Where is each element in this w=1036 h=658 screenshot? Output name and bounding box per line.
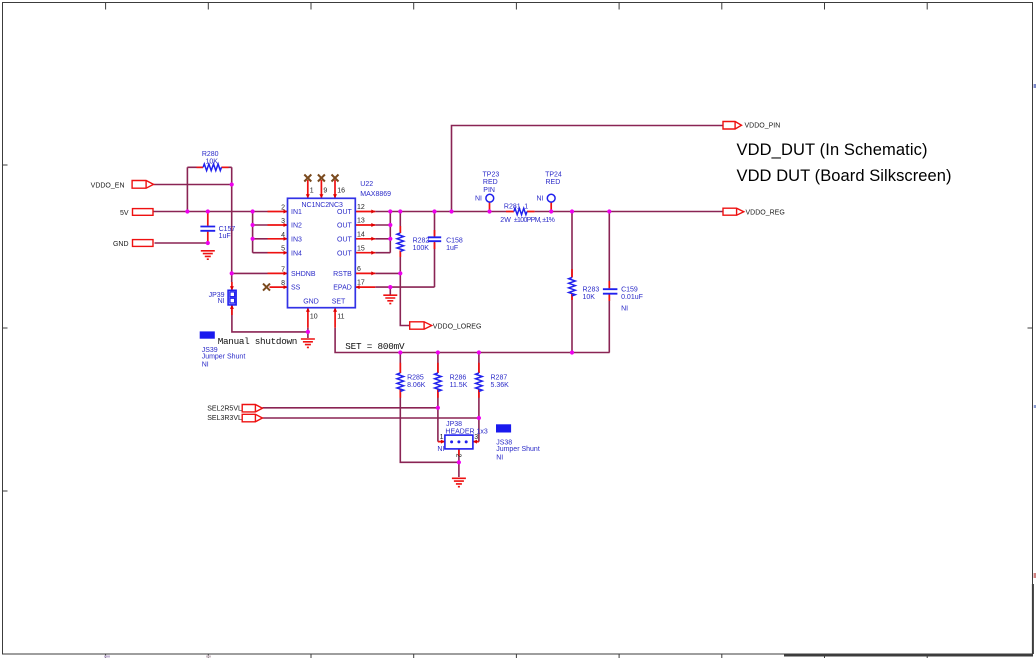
svg-text:11: 11 (337, 314, 344, 321)
svg-text:GND: GND (113, 241, 129, 248)
svg-text:R285: R285 (407, 374, 424, 381)
svg-text:SEL3R3VL: SEL3R3VL (207, 415, 242, 422)
svg-text:13: 13 (357, 218, 365, 225)
svg-text:Jumper Shunt: Jumper Shunt (496, 446, 540, 453)
svg-text:RED: RED (546, 179, 561, 186)
svg-text:±100PPM, ±1%: ±100PPM, ±1% (514, 217, 555, 224)
svg-text:15: 15 (357, 245, 365, 252)
svg-text:OUT: OUT (337, 209, 353, 216)
svg-text:R281: R281 (504, 204, 521, 211)
svg-text:5V: 5V (120, 210, 129, 217)
svg-text:PIN: PIN (483, 187, 495, 194)
svg-text:17: 17 (357, 280, 365, 287)
svg-text:SHDNB: SHDNB (291, 271, 316, 278)
svg-text:9: 9 (323, 187, 327, 194)
svg-text:EPAD: EPAD (333, 285, 352, 292)
svg-text:5.36K: 5.36K (491, 382, 510, 389)
svg-text:3: 3 (281, 218, 285, 225)
svg-text:3: 3 (474, 434, 478, 441)
svg-text:IN1: IN1 (291, 209, 302, 216)
svg-text:RED: RED (483, 179, 498, 186)
svg-text:C159: C159 (621, 286, 638, 293)
svg-text:NI: NI (621, 306, 628, 313)
svg-text:16: 16 (337, 187, 345, 194)
svg-text:1: 1 (524, 204, 528, 211)
svg-text:NI: NI (202, 361, 209, 368)
svg-text:0.01uF: 0.01uF (621, 294, 643, 301)
svg-text:100K: 100K (413, 245, 430, 252)
svg-text:OUT: OUT (337, 223, 353, 230)
svg-text:SEL2R5VL: SEL2R5VL (207, 405, 242, 412)
svg-text:R286: R286 (450, 374, 467, 381)
svg-text:R280: R280 (202, 151, 219, 158)
svg-text:R282: R282 (413, 237, 430, 244)
svg-text:5: 5 (281, 246, 285, 253)
svg-text:R283: R283 (583, 286, 600, 293)
svg-text:HEADER 1x3: HEADER 1x3 (445, 429, 488, 436)
svg-text:8: 8 (281, 280, 285, 287)
svg-text:TP23: TP23 (483, 171, 500, 178)
svg-text:10: 10 (310, 314, 318, 321)
svg-text:MAX8869: MAX8869 (360, 191, 391, 198)
svg-text:NI: NI (537, 195, 544, 202)
svg-text:1: 1 (310, 187, 314, 194)
svg-text:U22: U22 (360, 181, 373, 188)
svg-text:1: 1 (440, 434, 444, 441)
svg-text:1uF: 1uF (219, 233, 231, 240)
svg-text:GND: GND (303, 299, 319, 306)
svg-text:10K: 10K (583, 294, 596, 301)
svg-text:7: 7 (281, 266, 285, 273)
svg-text:NC3: NC3 (329, 202, 343, 209)
svg-text:IN4: IN4 (291, 250, 302, 257)
svg-text:10K: 10K (205, 158, 218, 165)
svg-text:VDDO_LOREG: VDDO_LOREG (433, 323, 482, 330)
svg-text:4: 4 (281, 232, 285, 239)
svg-text:VDD_DUT (In Schematic): VDD_DUT (In Schematic) (737, 141, 928, 159)
svg-text:11.5K: 11.5K (450, 382, 468, 389)
svg-text:JP38: JP38 (446, 421, 462, 428)
svg-text:VDDO_PIN: VDDO_PIN (745, 123, 781, 130)
svg-text:IN2: IN2 (291, 223, 302, 230)
svg-text:12: 12 (357, 204, 365, 211)
svg-text:NI: NI (437, 446, 444, 453)
svg-text:VDDO_EN: VDDO_EN (91, 182, 125, 189)
svg-text:NC1: NC1 (302, 202, 316, 209)
svg-text:IN3: IN3 (291, 236, 302, 243)
svg-text:SET = 800mV: SET = 800mV (345, 341, 405, 352)
svg-text:NI: NI (496, 455, 503, 462)
svg-text:TP24: TP24 (545, 171, 562, 178)
svg-text:2W: 2W (500, 217, 511, 224)
svg-text:Manual shutdown: Manual shutdown (218, 336, 298, 347)
svg-text:R287: R287 (491, 374, 508, 381)
svg-text:RSTB: RSTB (333, 271, 352, 278)
svg-text:6: 6 (357, 266, 361, 273)
svg-text:2: 2 (281, 205, 285, 212)
svg-text:VDD DUT (Board Silkscreen): VDD DUT (Board Silkscreen) (737, 167, 952, 185)
svg-text:C157: C157 (219, 226, 236, 233)
svg-text:C158: C158 (446, 237, 463, 244)
svg-text:8.06K: 8.06K (407, 382, 426, 389)
svg-text:VDDO_REG: VDDO_REG (746, 209, 785, 216)
svg-text:OUT: OUT (337, 250, 353, 257)
svg-text:Jumper Shunt: Jumper Shunt (202, 353, 246, 360)
svg-text:SS: SS (291, 285, 301, 292)
svg-text:NI: NI (218, 298, 225, 305)
svg-text:2: 2 (455, 454, 462, 458)
svg-text:14: 14 (357, 231, 365, 238)
svg-text:NI: NI (475, 195, 482, 202)
svg-text:NC2: NC2 (315, 202, 329, 209)
svg-text:SET: SET (332, 299, 346, 306)
svg-text:1uF: 1uF (446, 245, 458, 252)
svg-text:OUT: OUT (337, 236, 353, 243)
